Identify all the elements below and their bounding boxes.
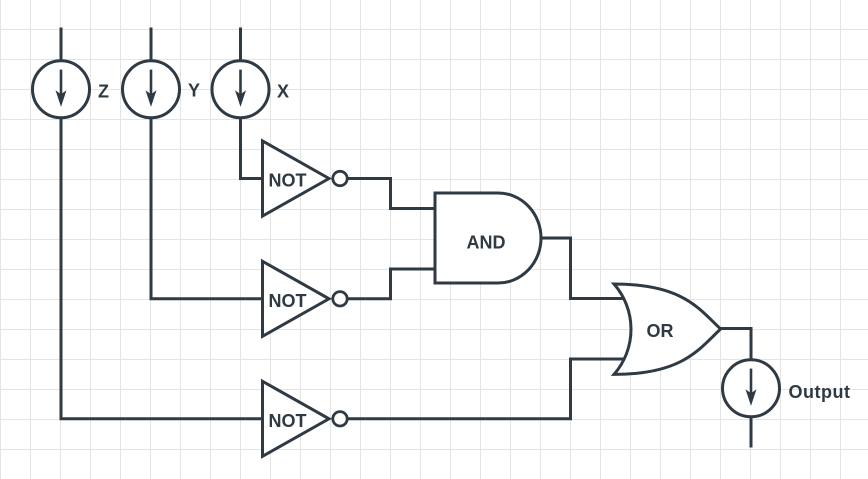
svg-text:X: X xyxy=(277,82,289,102)
svg-text:Output: Output xyxy=(789,382,851,402)
svg-text:NOT: NOT xyxy=(269,291,307,311)
svg-text:Z: Z xyxy=(98,82,109,102)
svg-text:NOT: NOT xyxy=(269,171,307,191)
svg-text:Y: Y xyxy=(188,81,200,101)
svg-text:NOT: NOT xyxy=(269,411,307,431)
svg-text:AND: AND xyxy=(467,233,506,253)
svg-text:OR: OR xyxy=(647,321,674,341)
